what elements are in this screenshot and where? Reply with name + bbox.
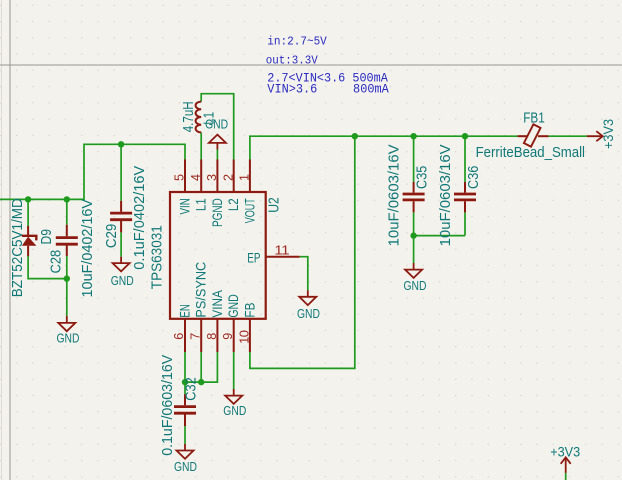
junction VOUT rail at C35 (410, 133, 416, 139)
svg-text:2: 2 (221, 174, 235, 181)
ground under C32 (174, 444, 197, 474)
svg-text:11: 11 (274, 243, 289, 257)
wire L1 top loop to pin2 (201, 94, 234, 160)
svg-text:C29: C29 (104, 224, 120, 249)
pin 7 PS/SYNC (189, 262, 210, 352)
svg-text:VOUT: VOUT (242, 198, 258, 223)
svg-text:D9: D9 (39, 229, 55, 244)
wire EP to ground (300, 257, 308, 291)
wire C29 top (120, 144, 122, 201)
wire PS/SYNC down (200, 352, 202, 382)
svg-text:4.7uH: 4.7uH (181, 101, 197, 132)
wire C32 top (184, 382, 186, 394)
capacitor C29 (110, 201, 132, 233)
svg-text:VINA: VINA (210, 290, 226, 318)
svg-text:10uF/0603/16V: 10uF/0603/16V (386, 144, 403, 246)
svg-text:GND: GND (226, 294, 242, 317)
pin 3 PGND (205, 160, 226, 228)
wire C32 to ground (184, 426, 186, 444)
svg-text:FB: FB (242, 303, 258, 318)
capacitor C32 (174, 394, 196, 426)
ground under C35 (404, 263, 427, 293)
pin 9 GND (221, 294, 242, 352)
ground above pin3 (205, 116, 228, 149)
wire pin3 to GND above (216, 150, 218, 160)
junction VOUT rail at C36 (462, 133, 468, 139)
svg-text:FerriteBead_Small: FerriteBead_Small (476, 145, 585, 161)
svg-text:GND: GND (174, 459, 197, 474)
wire C36 top (464, 136, 466, 182)
note text in/out (266, 35, 328, 68)
junction D9/C28 bottom (64, 275, 70, 281)
svg-text:C36: C36 (466, 166, 482, 189)
wire C35 to C36 bottom (414, 235, 465, 237)
svg-text:VIN>3.6 800mA: VIN>3.6 800mA (267, 81, 389, 96)
pin 8 VINA (205, 290, 226, 352)
capacitor C36 (454, 182, 476, 212)
power +3V3 right (587, 119, 617, 149)
svg-text:4: 4 (189, 174, 203, 181)
svg-text:GND: GND (111, 273, 134, 288)
svg-text:10: 10 (237, 330, 251, 344)
svg-text:GND: GND (223, 403, 246, 418)
wire EN down (184, 352, 186, 382)
IC U2 TPS63031 (170, 192, 266, 319)
svg-text:EN: EN (177, 304, 193, 317)
wire C29 to ground (120, 232, 122, 256)
junction at C29 (118, 141, 124, 147)
ferrite bead FB1 (518, 124, 549, 146)
wire pin9 to ground (233, 352, 235, 389)
pin 5 VIN (173, 160, 194, 215)
pin 1 VOUT (238, 160, 259, 224)
svg-text:0.1uF/0603/16V: 0.1uF/0603/16V (160, 355, 176, 456)
svg-text:PS/SYNC: PS/SYNC (194, 262, 210, 318)
wire bottom right +3V3 (565, 473, 567, 480)
capacitor C28 (56, 225, 78, 256)
wire FB feedback (250, 136, 355, 368)
pin 4 L1 (189, 160, 210, 212)
svg-text:0.1uF/0402/16V: 0.1uF/0402/16V (132, 166, 148, 270)
svg-text:U2: U2 (266, 197, 282, 213)
svg-text:5: 5 (173, 174, 187, 181)
svg-text:PGND: PGND (210, 198, 226, 227)
svg-text:FB1: FB1 (523, 110, 545, 126)
wire D9 bottom (28, 256, 67, 279)
junction VOUT rail at FB wire (352, 133, 358, 139)
svg-text:3: 3 (205, 174, 219, 181)
wire VOUT rail (250, 136, 518, 159)
wire VINA down (185, 352, 217, 382)
svg-text:VIN: VIN (177, 198, 193, 214)
wire FB1 to +3V3 (549, 135, 587, 137)
svg-text:6: 6 (172, 333, 186, 340)
svg-text:9: 9 (221, 333, 235, 340)
wire L1 bottom to pin4 (200, 132, 202, 159)
svg-text:TPS63031: TPS63031 (150, 225, 166, 289)
svg-text:GND: GND (404, 278, 427, 293)
pin 2 L2 (221, 160, 242, 212)
capacitor C35 (403, 182, 425, 212)
svg-text:L2: L2 (226, 198, 242, 211)
junction EN/C32 (182, 379, 188, 385)
svg-text:C35: C35 (415, 166, 431, 189)
svg-text:C32: C32 (183, 377, 199, 401)
ground at EP (297, 290, 320, 321)
svg-text:GND: GND (205, 116, 228, 131)
pin 10 FB (237, 303, 258, 352)
ground under C28 (57, 316, 80, 346)
wire C28 to ground (66, 279, 68, 316)
note text current ratings (267, 70, 389, 96)
svg-text:BZT52C5V1/MD: BZT52C5V1/MD (10, 198, 26, 297)
wire input rail (0, 144, 185, 199)
svg-text:EP: EP (247, 250, 260, 266)
junction PS/VINA (198, 379, 204, 385)
svg-text:10uF/0402/16V: 10uF/0402/16V (80, 199, 96, 298)
svg-text:L1: L1 (194, 198, 210, 211)
svg-text:1: 1 (238, 174, 252, 181)
wire C28 bottom (66, 256, 68, 279)
inductor L1 (196, 102, 202, 133)
wire C35 top (413, 136, 415, 182)
svg-text:in:2.7~5V: in:2.7~5V (267, 35, 327, 49)
junction C35 bottom (410, 232, 416, 238)
svg-text:GND: GND (297, 306, 320, 321)
wire C35 to ground (413, 236, 415, 263)
wire C28 top (66, 199, 68, 224)
wire C36 bottom (464, 212, 466, 235)
svg-text:+3V3: +3V3 (601, 119, 617, 149)
wire D9 top (27, 199, 29, 226)
svg-text:out:3.3V: out:3.3V (266, 53, 319, 67)
junction input rail at C28 (64, 196, 70, 202)
wire C35 bottom (413, 212, 415, 235)
ground at pin9 (223, 389, 246, 418)
svg-text:C28: C28 (49, 250, 65, 274)
pin 11 EP (247, 243, 299, 266)
zener diode D9 (22, 226, 37, 256)
power +3V3 bottom right (550, 444, 580, 473)
svg-text:7: 7 (189, 333, 203, 340)
ground under C29 (111, 257, 134, 288)
junction input rail at D9 (25, 196, 31, 202)
svg-text:8: 8 (205, 333, 219, 340)
svg-text:10uF/0603/16V: 10uF/0603/16V (437, 144, 454, 246)
pin 6 EN (172, 304, 193, 352)
svg-text:GND: GND (57, 331, 80, 346)
svg-text:+3V3: +3V3 (550, 444, 580, 460)
